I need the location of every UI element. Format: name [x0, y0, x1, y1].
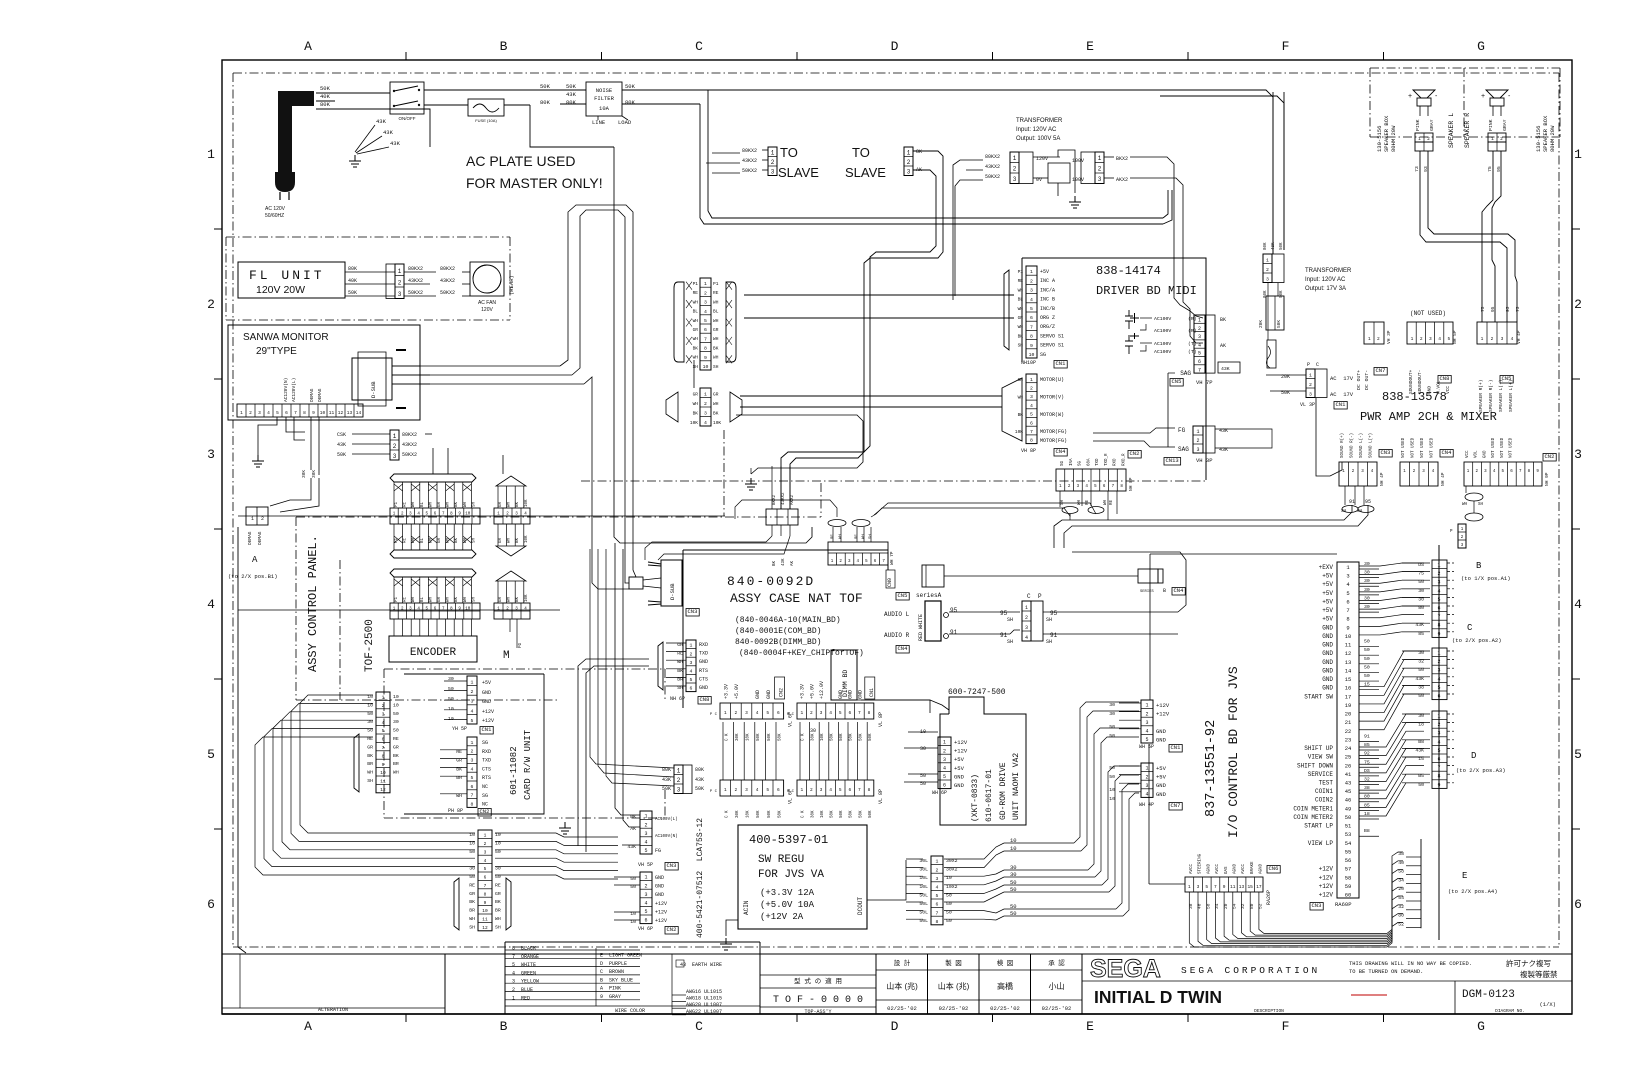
svg-text:2: 2	[690, 651, 693, 657]
svg-text:5: 5	[1198, 351, 1201, 357]
svg-text:600-7247-500: 600-7247-500	[948, 688, 1006, 697]
svg-text:50K: 50K	[1276, 320, 1282, 328]
svg-text:GND: GND	[954, 782, 965, 789]
svg-text:(REAR): (REAR)	[508, 275, 515, 295]
svg-text:43KX2: 43KX2	[402, 442, 417, 448]
svg-text:22: 22	[1345, 728, 1352, 735]
svg-text:50K: 50K	[757, 733, 761, 741]
svg-text:D-SUB: D-SUB	[669, 583, 676, 600]
svg-text:2: 2	[1030, 385, 1033, 391]
svg-text:9: 9	[704, 355, 707, 361]
svg-text:VIEW LP: VIEW LP	[1308, 840, 1334, 847]
svg-text:小山: 小山	[1049, 981, 1065, 991]
svg-text:(840-0046A-10(MAIN_BD): (840-0046A-10(MAIN_BD)	[735, 616, 841, 625]
svg-text:(+3.3V 12A: (+3.3V 12A	[760, 888, 815, 898]
svg-text:8: 8	[484, 891, 487, 897]
svg-text:3: 3	[820, 710, 823, 716]
svg-text:25: 25	[1345, 754, 1352, 761]
svg-text:3: 3	[471, 757, 474, 763]
svg-text:FG: FG	[1178, 427, 1186, 434]
svg-text:6: 6	[936, 902, 939, 908]
svg-text:RE: RE	[495, 882, 501, 888]
svg-text:11: 11	[1230, 884, 1236, 890]
svg-text:95: 95	[1365, 499, 1371, 505]
svg-text:AGND: AGND	[1260, 863, 1264, 874]
svg-text:+12V: +12V	[1319, 892, 1334, 899]
svg-text:73: 73	[1515, 306, 1521, 312]
svg-text:5: 5	[207, 747, 215, 762]
svg-text:3: 3	[393, 453, 397, 460]
svg-text:6: 6	[285, 410, 288, 416]
svg-text:6: 6	[207, 897, 215, 912]
svg-text:2: 2	[644, 822, 647, 828]
svg-text:WH: WH	[1018, 324, 1024, 330]
svg-text:1: 1	[1188, 884, 1191, 890]
svg-text:AC100V(L): AC100V(L)	[655, 817, 678, 822]
svg-text:DEMAG: DEMAG	[309, 388, 315, 402]
svg-text:120V 20W: 120V 20W	[256, 284, 305, 296]
svg-text:TXD: TXD	[1096, 458, 1100, 466]
svg-text:80K: 80K	[540, 99, 551, 106]
svg-text:BL: BL	[713, 309, 719, 315]
svg-text:50: 50	[1364, 639, 1370, 645]
svg-text:WH: WH	[1462, 503, 1468, 507]
svg-text:50K: 50K	[869, 810, 873, 818]
svg-text:02/25-'02: 02/25-'02	[887, 1005, 917, 1012]
svg-text:8: 8	[1437, 774, 1440, 780]
svg-text:43K: 43K	[662, 777, 671, 783]
svg-text:11: 11	[482, 917, 488, 923]
svg-text:D-SUB: D-SUB	[370, 381, 377, 398]
svg-text:RED WHITE: RED WHITE	[918, 614, 924, 641]
svg-text:4: 4	[644, 840, 647, 846]
svg-text:DEMAG: DEMAG	[247, 531, 253, 545]
svg-text:2: 2	[1437, 659, 1440, 665]
svg-text:8: 8	[868, 710, 871, 716]
svg-text:GND: GND	[1426, 386, 1432, 394]
svg-text:3: 3	[644, 892, 647, 898]
svg-text:D: D	[891, 39, 899, 54]
svg-text:AC100V: AC100V	[1154, 316, 1171, 322]
svg-text:CN1: CN1	[869, 688, 875, 697]
svg-text:50: 50	[1364, 647, 1370, 653]
svg-text:5: 5	[484, 866, 487, 872]
svg-text:VOL: VOL	[1475, 450, 1479, 458]
svg-text:10K: 10K	[747, 733, 751, 741]
svg-text:7: 7	[858, 787, 861, 793]
svg-text:SG: SG	[1079, 460, 1083, 466]
svg-text:RTS: RTS	[482, 775, 491, 781]
svg-text:4: 4	[829, 710, 832, 716]
svg-text:C K: C K	[802, 810, 806, 818]
svg-text:検 図: 検 図	[997, 958, 1014, 967]
svg-text:130-5156: 130-5156	[1535, 126, 1542, 152]
svg-text:BK: BK	[693, 345, 699, 351]
svg-text:GR: GR	[469, 891, 475, 897]
svg-text:3: 3	[677, 786, 681, 793]
svg-text:3: 3	[771, 168, 775, 175]
svg-text:3: 3	[1266, 276, 1269, 282]
svg-text:6: 6	[1574, 897, 1582, 912]
svg-text:+12V: +12V	[1156, 702, 1170, 709]
svg-text:8: 8	[1030, 438, 1033, 444]
svg-text:2: 2	[907, 159, 911, 166]
svg-text:7: 7	[484, 883, 487, 889]
svg-text:10: 10	[482, 908, 488, 914]
svg-text:+5V: +5V	[1322, 590, 1333, 597]
svg-text:3: 3	[1098, 176, 1102, 183]
svg-text:10: 10	[1029, 352, 1035, 358]
svg-text:SG: SG	[482, 740, 488, 746]
svg-text:80KX2: 80KX2	[440, 266, 455, 272]
svg-text:SEGA: SEGA	[1090, 955, 1161, 983]
svg-text:P C: P C	[787, 713, 795, 717]
svg-text:4: 4	[267, 410, 270, 416]
svg-text:CN3: CN3	[688, 608, 698, 615]
svg-text:1: 1	[1437, 651, 1440, 657]
svg-text:1: 1	[936, 859, 939, 865]
svg-text:50K: 50K	[840, 810, 844, 818]
svg-text:80K: 80K	[625, 99, 636, 106]
svg-text:91: 91	[1349, 499, 1355, 505]
svg-text:許可ナク複写: 許可ナク複写	[1506, 958, 1551, 968]
svg-text:G: G	[1477, 39, 1485, 54]
svg-text:承 認: 承 認	[1048, 958, 1065, 967]
svg-text:MOTOR(V): MOTOR(V)	[1040, 394, 1064, 400]
svg-text:CN6: CN6	[1269, 865, 1279, 872]
svg-text:+12V: +12V	[655, 918, 667, 924]
svg-text:GND: GND	[954, 773, 965, 780]
svg-text:10: 10	[320, 410, 326, 416]
svg-text:AC PLATE USED: AC PLATE USED	[466, 153, 575, 169]
svg-text:5: 5	[690, 677, 693, 683]
svg-text:11: 11	[380, 779, 386, 785]
svg-text:WH: WH	[412, 501, 416, 507]
svg-text:95: 95	[1490, 306, 1496, 312]
svg-text:43KX2: 43KX2	[985, 164, 1000, 170]
svg-text:43K: 43K	[337, 442, 346, 448]
svg-text:2: 2	[471, 749, 474, 755]
svg-text:80KX2: 80KX2	[402, 432, 417, 438]
svg-text:50K: 50K	[695, 786, 704, 792]
svg-text:+12V: +12V	[655, 901, 667, 907]
svg-text:SH: SH	[472, 537, 476, 543]
svg-text:START LP: START LP	[1304, 823, 1333, 830]
svg-text:ASSY CONTROL PANEL.: ASSY CONTROL PANEL.	[306, 535, 320, 672]
svg-text:NOT USED: NOT USED	[1421, 437, 1425, 458]
svg-text:3: 3	[1198, 334, 1201, 340]
svg-text:GND: GND	[1322, 685, 1333, 692]
svg-text:SPEAKER R(+): SPEAKER R(+)	[1478, 380, 1484, 412]
svg-text:+5V: +5V	[1156, 774, 1167, 781]
svg-text:WH: WH	[412, 596, 416, 602]
svg-text:WH: WH	[713, 355, 719, 361]
svg-text:WH: WH	[429, 501, 433, 507]
svg-text:BKX2: BKX2	[1116, 156, 1128, 162]
svg-text:START SW: START SW	[1304, 693, 1333, 700]
svg-text:T O F - 0 0 0 0: T O F - 0 0 0 0	[773, 995, 863, 1006]
svg-text:SH: SH	[367, 778, 373, 784]
svg-text:51: 51	[1345, 823, 1352, 830]
svg-text:C BROWN: C BROWN	[600, 969, 624, 975]
svg-text:7: 7	[1214, 884, 1217, 890]
svg-text:RA60P: RA60P	[1335, 901, 1352, 908]
svg-text:30K: 30K	[736, 810, 740, 818]
svg-text:1: 1	[1437, 563, 1440, 569]
svg-text:5: 5	[471, 775, 474, 781]
svg-text:GR: GR	[393, 744, 399, 750]
svg-text:4: 4	[1437, 588, 1440, 594]
svg-text:3: 3	[1145, 783, 1148, 789]
svg-text:(NOT USED): (NOT USED)	[1410, 310, 1446, 317]
svg-text:CN5: CN5	[1502, 375, 1512, 382]
svg-text:100V: 100V	[1072, 177, 1084, 183]
svg-text:8: 8	[303, 410, 306, 416]
svg-text:16: 16	[1345, 685, 1352, 692]
svg-text:BL: BL	[1018, 297, 1024, 303]
svg-text:2: 2	[1377, 336, 1380, 342]
svg-text:+5V: +5V	[1322, 616, 1333, 623]
svg-text:60: 60	[1345, 892, 1352, 899]
svg-text:50K: 50K	[831, 810, 835, 818]
svg-text:4: 4	[382, 720, 385, 726]
svg-text:CTS: CTS	[482, 766, 491, 772]
svg-text:32: 32	[1240, 903, 1246, 909]
svg-text:WH: WH	[469, 916, 475, 922]
svg-text:RE: RE	[404, 501, 408, 507]
svg-text:02/25-'02: 02/25-'02	[990, 1005, 1020, 1012]
svg-text:95: 95	[950, 607, 958, 614]
svg-text:CN4: CN4	[1442, 449, 1453, 456]
svg-text:5: 5	[1437, 748, 1440, 754]
svg-text:5: 5	[382, 728, 385, 734]
svg-text:NH 4P: NH 4P	[1440, 472, 1446, 486]
svg-text:9: 9	[1346, 624, 1349, 631]
svg-text:YH 5P: YH 5P	[452, 726, 467, 732]
svg-text:WH: WH	[693, 318, 699, 324]
svg-text:8: 8	[1030, 334, 1033, 340]
svg-text:2: 2	[1574, 297, 1582, 312]
svg-text:12: 12	[380, 787, 386, 793]
svg-text:1: 1	[240, 410, 243, 416]
svg-text:4: 4	[1145, 729, 1148, 735]
svg-text:3: 3	[1030, 288, 1033, 294]
svg-text:F: F	[1282, 39, 1290, 54]
svg-text:CN1: CN1	[1056, 360, 1067, 367]
svg-text:FILTER: FILTER	[594, 95, 615, 102]
svg-text:A PINK: A PINK	[600, 986, 621, 992]
svg-text:BK: BK	[693, 411, 699, 417]
svg-text:50KX2: 50KX2	[440, 290, 455, 296]
svg-text:840-0092B(DIMM_BD): 840-0092B(DIMM_BD)	[735, 638, 821, 647]
svg-text:2: 2	[261, 516, 264, 522]
svg-text:10K: 10K	[690, 420, 698, 426]
svg-text:C: C	[1027, 593, 1031, 600]
svg-text:WH: WH	[1018, 287, 1024, 293]
svg-text:50K: 50K	[1280, 242, 1284, 250]
svg-text:30K: 30K	[736, 733, 740, 741]
svg-text:1: 1	[907, 149, 911, 156]
svg-text:1: 1	[724, 710, 727, 716]
svg-text:TO: TO	[852, 145, 870, 160]
svg-text:SERVO S1: SERVO S1	[1040, 343, 1064, 349]
svg-text:AK: AK	[1220, 343, 1226, 349]
svg-text:SH: SH	[693, 364, 699, 370]
svg-text:COIN1: COIN1	[1315, 788, 1333, 795]
svg-text:WH: WH	[693, 336, 699, 342]
svg-text:F: F	[1282, 1019, 1290, 1034]
svg-text:91: 91	[1364, 733, 1370, 739]
svg-text:GR: GR	[693, 392, 699, 398]
svg-text:D PURPLE: D PURPLE	[600, 961, 627, 967]
svg-text:B: B	[500, 39, 508, 54]
svg-text:+EXV: +EXV	[1319, 564, 1334, 571]
svg-text:複製等厳禁: 複製等厳禁	[1520, 969, 1558, 979]
svg-text:50K: 50K	[625, 83, 636, 90]
svg-text:GR: GR	[693, 327, 699, 333]
svg-text:1: 1	[943, 740, 946, 746]
svg-text:1: 1	[1481, 336, 1484, 342]
svg-text:BK: BK	[469, 899, 475, 905]
svg-text:INC A: INC A	[1040, 278, 1055, 284]
svg-text:GR: GR	[499, 596, 503, 602]
svg-text:80K: 80K	[1264, 290, 1268, 298]
svg-text:5: 5	[1447, 336, 1450, 342]
svg-text:NH 5P: NH 5P	[1452, 330, 1458, 344]
svg-text:SPEAKER BOX: SPEAKER BOX	[1383, 115, 1390, 152]
svg-text:BR: BR	[367, 761, 373, 767]
svg-text:5: 5	[1437, 685, 1440, 691]
svg-text:5: 5	[1574, 747, 1582, 762]
svg-text:2: 2	[735, 710, 738, 716]
svg-text:7: 7	[936, 910, 939, 916]
svg-text:601-11082: 601-11082	[509, 746, 519, 795]
svg-text:2: 2	[393, 443, 397, 450]
svg-text:4: 4	[207, 597, 215, 612]
svg-text:46: 46	[1345, 797, 1352, 804]
svg-text:75: 75	[1487, 166, 1493, 172]
svg-text:02/25-'02: 02/25-'02	[1042, 1005, 1072, 1012]
svg-text:7: 7	[382, 745, 385, 751]
svg-text:NH 6P: NH 6P	[670, 696, 685, 702]
svg-text:43K: 43K	[390, 140, 401, 147]
svg-text:GR: GR	[499, 501, 503, 507]
svg-text:43K: 43K	[782, 558, 786, 566]
svg-text:AGND: AGND	[1207, 863, 1211, 874]
svg-text:6: 6	[704, 327, 707, 333]
svg-text:Output: 17V 3A: Output: 17V 3A	[1305, 286, 1346, 292]
svg-text:BK: BK	[393, 753, 399, 759]
svg-text:2: 2	[249, 410, 252, 416]
svg-text:837-13551-92: 837-13551-92	[1204, 720, 1219, 817]
svg-text:50K: 50K	[778, 733, 782, 741]
svg-text:+5V: +5V	[1040, 269, 1049, 275]
svg-text:10K: 10K	[525, 535, 529, 543]
svg-text:SH: SH	[1478, 503, 1484, 507]
svg-text:B8: B8	[1364, 828, 1370, 834]
svg-text:GND: GND	[1322, 624, 1333, 631]
svg-text:50K: 50K	[1280, 290, 1284, 298]
svg-text:PH 8P: PH 8P	[448, 808, 463, 814]
svg-text:WH: WH	[1018, 306, 1024, 312]
svg-text:43KX2: 43KX2	[782, 492, 786, 505]
svg-text:56: 56	[1345, 857, 1352, 864]
svg-text:50K: 50K	[337, 452, 346, 458]
svg-text:4: 4	[936, 885, 939, 891]
svg-text:2: 2	[704, 401, 707, 407]
svg-text:GND: GND	[655, 875, 664, 881]
svg-text:E LIGHT GREEN: E LIGHT GREEN	[600, 953, 642, 959]
svg-text:1: 1	[1145, 766, 1148, 772]
svg-text:80HM 20W: 80HM 20W	[1549, 125, 1556, 152]
svg-text:2: 2	[810, 710, 813, 716]
svg-text:1: 1	[724, 787, 727, 793]
svg-text:7: 7	[1030, 324, 1033, 330]
svg-text:DCOUT: DCOUT	[857, 897, 864, 915]
svg-text:6: 6	[690, 686, 693, 692]
svg-text:GND: GND	[1322, 633, 1333, 640]
svg-text:型 式 の 適 用: 型 式 の 適 用	[794, 976, 842, 985]
svg-text:GRAY: GRAY	[1502, 119, 1508, 131]
svg-text:SAG: SAG	[1180, 370, 1191, 377]
svg-text:3: 3	[1429, 336, 1432, 342]
svg-text:43K: 43K	[383, 129, 394, 136]
svg-text:NC: NC	[482, 784, 488, 790]
svg-text:P1: P1	[713, 281, 719, 287]
svg-text:SH: SH	[1046, 639, 1052, 645]
svg-text:8: 8	[471, 801, 474, 807]
svg-text:30K: 30K	[811, 733, 815, 741]
svg-text:10: 10	[703, 364, 709, 370]
svg-text:3: 3	[398, 291, 402, 298]
svg-text:5: 5	[644, 909, 647, 915]
svg-text:AC120V(N): AC120V(N)	[283, 378, 289, 402]
svg-text:NOT USED: NOT USED	[1492, 437, 1496, 458]
svg-text:95: 95	[1050, 610, 1058, 617]
svg-text:AWG16 UL1015: AWG16 UL1015	[686, 989, 722, 995]
svg-text:5: 5	[1346, 590, 1349, 597]
svg-text:CSK: CSK	[337, 432, 346, 438]
svg-text:50KX2: 50KX2	[985, 174, 1000, 180]
svg-text:RXD: RXD	[482, 749, 491, 755]
svg-text:(to 2/X pos.A4): (to 2/X pos.A4)	[1448, 888, 1498, 895]
svg-text:3: 3	[704, 300, 707, 306]
svg-text:+5V: +5V	[1322, 581, 1333, 588]
svg-text:CN13: CN13	[1166, 457, 1179, 464]
svg-text:DESCRIPTION: DESCRIPTION	[1254, 1008, 1284, 1014]
svg-text:55: 55	[1345, 848, 1352, 855]
svg-text:GND: GND	[1322, 650, 1333, 657]
svg-text:1: 1	[644, 875, 647, 881]
svg-text:2: 2	[1309, 382, 1312, 388]
svg-text:BKX2: BKX2	[773, 494, 777, 505]
svg-text:9: 9	[1437, 631, 1440, 637]
svg-text:FUSE (10A): FUSE (10A)	[475, 118, 497, 123]
svg-text:AC 120V: AC 120V	[265, 206, 286, 212]
svg-text:SPEAKER L(-): SPEAKER L(-)	[1498, 380, 1504, 412]
svg-text:WH 6P: WH 6P	[932, 790, 947, 796]
svg-text:5: 5	[839, 787, 842, 793]
svg-text:1: 1	[1098, 155, 1102, 162]
svg-text:C: C	[1467, 623, 1473, 633]
svg-text:NH 8P: NH 8P	[1128, 477, 1134, 491]
svg-text:BR: BR	[469, 908, 475, 914]
svg-text:MOTOR(W): MOTOR(W)	[1040, 412, 1064, 418]
svg-text:CN9: CN9	[887, 578, 893, 587]
svg-text:30: 30	[393, 719, 399, 725]
svg-text:VH 6P: VH 6P	[638, 926, 653, 932]
svg-text:TXD: TXD	[482, 758, 491, 764]
